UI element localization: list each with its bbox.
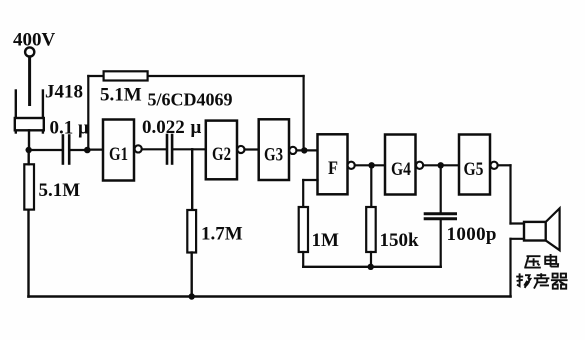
svg-text:F: F	[328, 158, 338, 179]
label 压电 (piezo) hand-drawn	[524, 254, 558, 268]
svg-text:G5: G5	[464, 159, 484, 180]
Geiger tube J418 left wall	[15, 91, 17, 133]
svg-text:5.1M: 5.1M	[100, 85, 142, 106]
svg-text:150k: 150k	[380, 230, 420, 251]
speaker BL cone	[546, 208, 560, 250]
wire node A to C1	[29, 149, 62, 151]
svg-text:μ: μ	[191, 117, 202, 138]
svg-text:G3: G3	[264, 145, 283, 166]
wire node B to G1 input	[87, 149, 103, 151]
resistor R3 1.7M body	[187, 210, 196, 253]
node D junction (F out / 150k / G4 in)	[368, 162, 374, 168]
inverter G3 body	[259, 119, 289, 180]
capacitor C3 1000p top plate	[425, 212, 455, 215]
node A junction (tube / 5.1M / 0.1u)	[26, 147, 32, 153]
inverter G5 output bubble	[491, 162, 498, 169]
svg-text:400V: 400V	[13, 30, 56, 51]
wire R3 bottom to ground rail	[190, 253, 192, 297]
wire F lower input stub	[303, 179, 317, 181]
inverter G3 output bubble	[289, 147, 296, 154]
wire cathode lead down to node A	[28, 130, 30, 150]
inverter G2 body	[206, 121, 237, 180]
char 器	[551, 274, 568, 289]
char 压	[524, 256, 541, 268]
resistor R5 150k body	[366, 207, 376, 252]
wire R4 bottom to sub rail	[302, 252, 304, 267]
wire feedback riser from node B up to top rail	[87, 76, 89, 150]
wire C2 to G2 input	[173, 148, 206, 150]
wire C3 bottom to sub rail	[440, 220, 442, 266]
wire sub rail (1M / 150k / 1000p common)	[303, 266, 441, 268]
wire anode lead from 400V terminal into tube	[28, 57, 31, 105]
wire top rail right segment	[148, 75, 304, 77]
wire G5 output right	[498, 164, 511, 166]
svg-text:G4: G4	[391, 159, 411, 180]
svg-text:1.7M: 1.7M	[201, 224, 243, 245]
char 电	[545, 254, 558, 267]
wire feedback riser down to node C	[303, 76, 305, 150]
node B junction (C1 / feedback / G1 input)	[84, 147, 91, 154]
wire down to speaker top terminal	[509, 165, 511, 223]
gate F output bubble	[348, 162, 355, 169]
node F2 junction (G4 out / 1000p / G5 in)	[438, 162, 444, 168]
wire G4 output to G5 input	[423, 164, 459, 166]
wire G2 output to G3 input	[245, 148, 259, 150]
wire G3 output to F input	[297, 149, 318, 151]
wire F output to G4 input	[355, 164, 385, 166]
wire node F2 down to C3 1000p	[440, 165, 442, 212]
node G junction (R3 / bottom rail)	[189, 293, 195, 299]
wire speaker top stub	[511, 222, 525, 224]
Geiger tube J418 right wall	[42, 91, 44, 133]
char 声	[534, 273, 550, 288]
label 扬声器 (speaker) hand-drawn	[516, 273, 567, 288]
inverter G2 output bubble	[237, 146, 244, 153]
speaker BL driver body	[524, 222, 546, 241]
svg-text:1000p: 1000p	[447, 224, 497, 245]
wire R1 top to node A	[28, 150, 30, 164]
Geiger tube J418 cathode bar	[15, 118, 44, 130]
wire top rail left segment	[88, 75, 104, 77]
wire tap down to R3 1.7M	[191, 149, 193, 210]
capacitor C2 0.022u right plate	[171, 135, 174, 164]
inverter G5 body	[459, 135, 490, 195]
resistor R1 5.1M body	[24, 164, 34, 209]
inverter G1 output bubble	[135, 145, 142, 152]
svg-text:1M: 1M	[312, 230, 340, 251]
svg-text:0.1: 0.1	[50, 118, 74, 139]
gate F body	[318, 134, 348, 194]
svg-text:J418: J418	[45, 82, 83, 103]
wire node D down to R5 150k	[370, 165, 372, 207]
wire R5 bottom to sub rail	[370, 252, 372, 267]
capacitor C2 0.022u left plate	[166, 135, 169, 164]
wire speaker bottom stub	[511, 238, 525, 240]
capacitor C1 0.1u right plate	[68, 136, 71, 164]
wire C1 to node B	[71, 149, 88, 151]
inverter G4 output bubble	[416, 162, 423, 169]
node C junction (G3 out / feedback / F in)	[301, 147, 307, 153]
wire left rail riser to R1	[27, 210, 29, 297]
svg-text:G1: G1	[109, 144, 128, 165]
svg-text:5.1M: 5.1M	[39, 180, 81, 201]
capacitor C3 1000p bottom plate	[425, 217, 455, 220]
node E junction (R5 / sub rail)	[368, 264, 374, 270]
node 400V supply terminal	[25, 47, 34, 56]
svg-text:0.022: 0.022	[142, 117, 185, 138]
wire down from F lower input to R4 1M	[302, 180, 304, 207]
capacitor C1 0.1u left plate	[62, 136, 65, 164]
wire G1 output to C2	[142, 148, 166, 150]
inverter G4 body	[385, 135, 416, 195]
svg-text:G2: G2	[212, 144, 231, 165]
char 扬	[516, 273, 530, 287]
resistor R4 1M body	[299, 207, 308, 252]
inverter G1 body	[103, 120, 134, 181]
svg-text:5/6CD4069: 5/6CD4069	[148, 90, 233, 110]
resistor R2 5.1M feedback body	[104, 71, 148, 80]
wire bottom ground rail	[29, 295, 511, 298]
wire down from speaker bottom to ground rail	[509, 239, 511, 297]
